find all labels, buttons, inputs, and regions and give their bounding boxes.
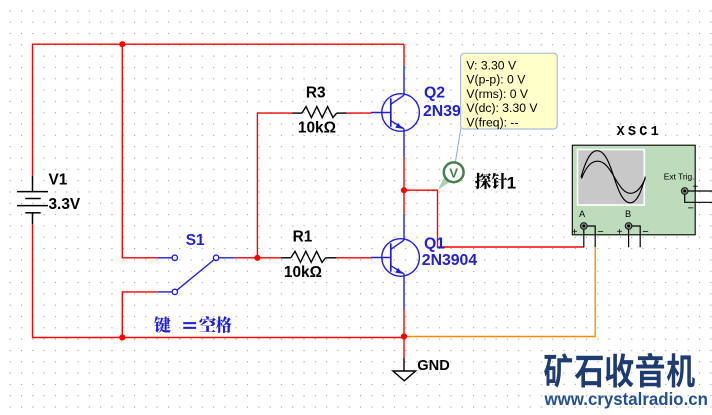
transistor Q2 (371, 66, 419, 158)
wire from top rail junction down to S1 pin 1 (122, 44, 157, 258)
svg-text:3.3V: 3.3V (49, 196, 81, 213)
wire GND junction stub down (403, 337, 405, 358)
Ext Trig minus post (685, 195, 712, 203)
svg-text:GND: GND (417, 358, 449, 374)
svg-text:10kΩ: 10kΩ (298, 119, 336, 136)
oscilloscope screen sine trace 1 (581, 151, 645, 203)
resistor R1 (281, 251, 337, 262)
wire Q1 emitter to GND junction (403, 309, 405, 337)
wire R3 right lead to Q2 base (347, 112, 372, 114)
svg-text:Q2: Q2 (424, 85, 445, 102)
svg-text:Ext Trig.: Ext Trig. (664, 172, 695, 182)
oscilloscope Ext Trig terminal (681, 188, 688, 195)
wire Q2 collector to top rail (403, 44, 405, 66)
svg-text:−: − (597, 226, 603, 238)
Ext Trig plus post (688, 190, 712, 192)
junction S1 pin2 / bottom rail (119, 334, 125, 340)
svg-text:+: + (572, 227, 578, 238)
wire oscilloscope A- to GND junction (orange) (405, 248, 596, 337)
svg-text:2N3904: 2N3904 (422, 252, 478, 269)
channel A plus post (583, 230, 585, 248)
junction node R (S1-R1-R3) (254, 255, 260, 261)
svg-text:V: V (449, 166, 458, 181)
probe 探针1 body (444, 162, 464, 182)
transistor Q1 (371, 214, 419, 309)
probe leader line from tooltip (455, 129, 461, 163)
svg-text:1: 1 (507, 174, 516, 193)
junction top rail / S1 branch (119, 41, 125, 47)
svg-text:B: B (625, 209, 631, 219)
svg-text:10kΩ: 10kΩ (284, 264, 322, 281)
wire S1 throw to node R (235, 257, 258, 259)
svg-text:+: + (693, 182, 699, 193)
watermark 矿石收音机 logo (544, 353, 695, 388)
svg-text:−: − (642, 226, 648, 238)
oscilloscope screen sine trace 2 (582, 161, 646, 193)
svg-text:R1: R1 (293, 229, 313, 246)
svg-text:V(dc): 3.30 V: V(dc): 3.30 V (466, 101, 538, 115)
channel A minus post (587, 226, 595, 247)
wire node R up to R3 left lead (257, 113, 292, 258)
battery V1 3.3V (17, 176, 48, 225)
switch S1 (157, 255, 235, 294)
svg-text:V1: V1 (49, 172, 68, 189)
svg-text:+: + (617, 227, 623, 238)
label key = space (键 = 空格) (154, 316, 231, 333)
svg-text:Q1: Q1 (424, 235, 445, 252)
svg-text:www.crystalradio.cn: www.crystalradio.cn (544, 389, 708, 409)
svg-text:S1: S1 (186, 232, 205, 249)
oscilloscope channel A terminal (581, 223, 588, 230)
svg-text:V: 3.30 V: V: 3.30 V (466, 58, 517, 72)
oscilloscope screen (578, 150, 645, 206)
junction GND node (401, 333, 407, 339)
channel B minus post (632, 226, 640, 247)
wire R1 right lead to Q1 base (336, 257, 371, 259)
oscilloscope channel B terminal (625, 223, 632, 230)
wire Q2 emitter to node E (403, 158, 405, 214)
wire top rail from V1+ to Q2 collector (33, 44, 405, 176)
junction node E (Q2 emitter / Q1 collector / probe) (401, 187, 407, 193)
svg-text:A: A (579, 209, 586, 219)
wire node R to R1 left lead (257, 257, 280, 259)
probe tooltip readout box (461, 53, 558, 129)
svg-text:V(p-p): 0 V: V(p-p): 0 V (466, 73, 526, 87)
label 探针1 (475, 173, 516, 193)
channel B plus post (628, 230, 630, 248)
svg-text:V(freq): --: V(freq): -- (466, 115, 518, 129)
wire node E to probe corner to oscilloscope A+ (404, 190, 584, 247)
oscilloscope XSC1 body (572, 145, 695, 235)
wire left rail V1- to bottom rail to GND junction (33, 224, 405, 337)
svg-text:V(rms): 0 V: V(rms): 0 V (466, 87, 528, 101)
svg-text:R3: R3 (306, 85, 326, 102)
svg-text:−: − (688, 203, 694, 215)
resistor R3 (293, 107, 347, 118)
ground (393, 358, 416, 381)
probe 探针1 needle (438, 176, 451, 190)
wire from S1 pin 2 down to bottom rail (122, 292, 157, 338)
